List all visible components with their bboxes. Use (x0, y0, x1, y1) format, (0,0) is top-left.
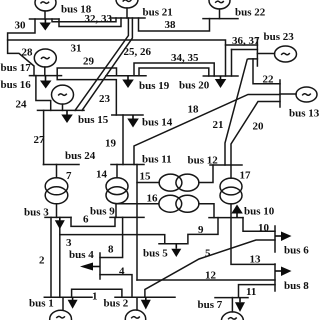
svg-text:34, 35: 34, 35 (171, 52, 199, 64)
svg-text:bus 1: bus 1 (29, 298, 54, 310)
svg-text:11: 11 (246, 286, 256, 298)
svg-text:20: 20 (253, 121, 265, 133)
svg-text:bus 2: bus 2 (104, 298, 129, 310)
svg-text:31: 31 (71, 43, 82, 55)
svg-text:30: 30 (15, 20, 27, 32)
svg-text:4: 4 (119, 266, 125, 278)
svg-text:8: 8 (108, 244, 114, 256)
svg-text:bus 5: bus 5 (143, 248, 168, 260)
svg-text:bus 8: bus 8 (284, 280, 309, 292)
svg-text:32, 33: 32, 33 (85, 13, 113, 25)
svg-text:bus 21: bus 21 (143, 7, 173, 19)
svg-text:bus 14: bus 14 (142, 117, 173, 129)
svg-text:1: 1 (92, 291, 98, 303)
svg-text:bus 17: bus 17 (1, 62, 32, 74)
svg-text:bus 10: bus 10 (244, 206, 275, 218)
svg-text:16: 16 (147, 193, 159, 205)
svg-text:29: 29 (83, 56, 95, 68)
svg-text:5: 5 (205, 248, 211, 260)
svg-text:bus 3: bus 3 (24, 207, 49, 219)
svg-text:17: 17 (240, 170, 252, 182)
svg-text:bus 6: bus 6 (284, 245, 309, 257)
svg-text:24: 24 (16, 99, 28, 111)
svg-text:bus 12: bus 12 (188, 155, 219, 167)
svg-text:15: 15 (140, 171, 152, 183)
svg-text:23: 23 (99, 93, 111, 105)
svg-text:21: 21 (213, 119, 224, 131)
svg-text:6: 6 (83, 214, 89, 226)
svg-text:bus 13: bus 13 (289, 108, 320, 120)
svg-text:bus 19: bus 19 (139, 80, 170, 92)
svg-text:2: 2 (39, 255, 45, 267)
svg-text:19: 19 (105, 138, 117, 150)
svg-text:27: 27 (34, 134, 46, 146)
svg-text:bus 23: bus 23 (264, 31, 295, 43)
svg-text:bus 15: bus 15 (78, 114, 109, 126)
svg-text:7: 7 (66, 170, 72, 182)
svg-text:bus 22: bus 22 (235, 7, 266, 19)
svg-text:25, 26: 25, 26 (124, 46, 152, 58)
svg-text:36, 37: 36, 37 (232, 35, 260, 47)
svg-text:28: 28 (22, 47, 34, 59)
svg-text:10: 10 (258, 222, 270, 234)
svg-text:bus 20: bus 20 (179, 80, 210, 92)
svg-text:38: 38 (165, 19, 177, 31)
svg-text:14: 14 (96, 169, 108, 181)
svg-text:bus 9: bus 9 (90, 206, 115, 218)
svg-text:bus 24: bus 24 (65, 150, 96, 162)
svg-text:3: 3 (66, 237, 72, 249)
svg-text:bus 16: bus 16 (1, 79, 32, 91)
svg-text:bus 7: bus 7 (198, 299, 223, 311)
svg-text:13: 13 (250, 254, 262, 266)
svg-text:18: 18 (188, 104, 200, 116)
svg-text:bus 11: bus 11 (142, 154, 172, 166)
svg-text:bus 4: bus 4 (69, 249, 94, 261)
svg-text:12: 12 (205, 270, 217, 282)
svg-text:9: 9 (198, 224, 204, 236)
svg-text:22: 22 (263, 74, 275, 86)
